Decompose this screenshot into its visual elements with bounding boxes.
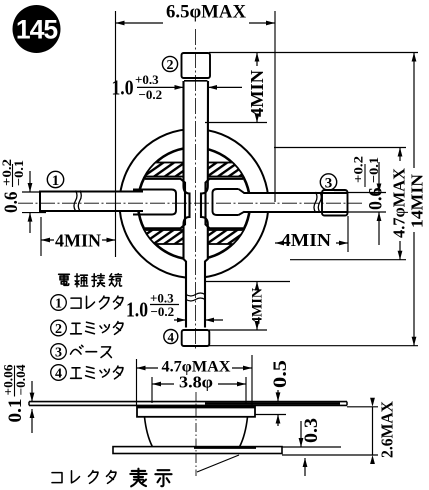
svg-text:4: 4 — [168, 329, 175, 344]
svg-text:−0.2: −0.2 — [139, 87, 163, 102]
svg-text:3: 3 — [55, 346, 62, 361]
pad right (header land) — [206, 179, 244, 229]
side view body taper — [145, 417, 248, 447]
centerline vertical (top view) — [195, 29, 197, 350]
svg-text:0.5: 0.5 — [270, 360, 291, 388]
inner circle (4.7 dia header) — [138, 148, 250, 260]
svg-text:1: 1 — [52, 173, 60, 189]
dim 14MIN — [209, 53, 427, 346]
pin circle 3 — [320, 174, 336, 192]
svg-text:0.1: 0.1 — [5, 399, 26, 423]
lead 3 break mark — [314, 192, 321, 212]
figure number badge 145 — [13, 5, 61, 53]
dim 6.5 dia MAX — [116, 2, 276, 258]
hatched band top — [132, 163, 258, 177]
svg-text:−0.2: −0.2 — [151, 304, 175, 319]
svg-text:4MIN: 4MIN — [281, 230, 331, 250]
list item 3 base — [51, 344, 112, 361]
svg-text:0.3: 0.3 — [301, 418, 322, 443]
svg-text:3.8φ: 3.8φ — [179, 373, 213, 392]
lead 2 tip (flattened end, 1.0 wide) — [182, 53, 211, 78]
dim 3.8 dia — [152, 373, 246, 404]
svg-text:145: 145 — [16, 15, 57, 45]
side view lead ribbon — [29, 402, 347, 406]
lead 1 tip inside header — [133, 190, 176, 215]
lead 1 shaft (left collector lead) — [40, 192, 143, 212]
pin circle 2 — [162, 56, 177, 73]
lead 4 tip (bottom emitter) — [182, 330, 210, 346]
lead 3 notch inside header — [213, 189, 239, 215]
lead 1 break mark — [74, 191, 81, 211]
svg-text:0.6: 0.6 — [1, 192, 22, 214]
list item 4 emitter — [51, 365, 123, 382]
svg-text:1.0: 1.0 — [126, 298, 148, 322]
svg-text:4MIN: 4MIN — [247, 70, 267, 117]
svg-text:−0.04: −0.04 — [14, 364, 28, 396]
side view header top plate — [137, 407, 255, 417]
svg-text:4: 4 — [55, 367, 62, 382]
svg-text:1: 1 — [55, 297, 62, 312]
svg-text:1.0: 1.0 — [112, 76, 134, 100]
collector marking label — [52, 455, 239, 486]
dim 4MIN top lead — [205, 53, 267, 123]
dim 0.6 right lead — [334, 156, 387, 245]
dim 4.7 dia MAX (side view) — [137, 355, 253, 406]
side view flange — [113, 447, 282, 454]
svg-text:2: 2 — [55, 322, 62, 337]
dim 4MIN left lead — [41, 217, 116, 256]
list item 1 collector — [51, 295, 123, 312]
svg-text:+0.2: +0.2 — [351, 156, 366, 183]
dim 0.6 left lead — [0, 159, 46, 233]
pad left (header land) — [145, 179, 185, 229]
dim 2.6MAX — [282, 398, 397, 464]
lead 3 tip (right flattened end) — [322, 190, 348, 216]
svg-text:2: 2 — [167, 58, 174, 73]
pin circle 1 — [47, 171, 63, 189]
svg-text:14MIN: 14MIN — [408, 173, 427, 228]
svg-text:4.7φMAX: 4.7φMAX — [390, 167, 409, 238]
list item 2 emitter — [51, 320, 123, 337]
lead 2 shaft (top emitter lead, vertical) — [184, 81, 209, 328]
svg-text:0.6: 0.6 — [366, 188, 387, 211]
electrode connection list title — [59, 274, 122, 287]
svg-text:4MIN: 4MIN — [55, 231, 101, 251]
dim 4.7 dia MAX (top view) — [274, 148, 409, 260]
svg-text:−0.1: −0.1 — [366, 157, 381, 183]
svg-text:−0.1: −0.1 — [11, 160, 26, 186]
centerline horizontal (top view) — [18, 202, 362, 204]
dim 0.3 — [282, 418, 341, 476]
lead 4 break mark — [186, 293, 205, 301]
dim 0.5 — [255, 360, 291, 426]
lead 3 shaft (right base lead) — [243, 193, 348, 212]
svg-text:+0.3: +0.3 — [135, 72, 159, 87]
svg-text:2.6MAX: 2.6MAX — [378, 400, 397, 458]
dim 1.0 bottom lead width — [126, 291, 223, 323]
dim 4MIN bottom lead — [205, 282, 290, 331]
svg-text:3: 3 — [325, 175, 333, 191]
svg-text:4MIN: 4MIN — [250, 288, 266, 324]
dim 1.0 top lead width — [112, 72, 243, 102]
hatched band bottom — [132, 230, 258, 244]
outer circle (6.5 dia package outline) — [120, 129, 269, 278]
centerline vertical (side view) — [195, 392, 197, 476]
dim 4MIN right lead — [275, 216, 348, 252]
dim 0.1 lead thickness — [2, 364, 35, 433]
pin circle 4 — [164, 329, 178, 344]
svg-text:6.5φMAX: 6.5φMAX — [166, 2, 246, 23]
